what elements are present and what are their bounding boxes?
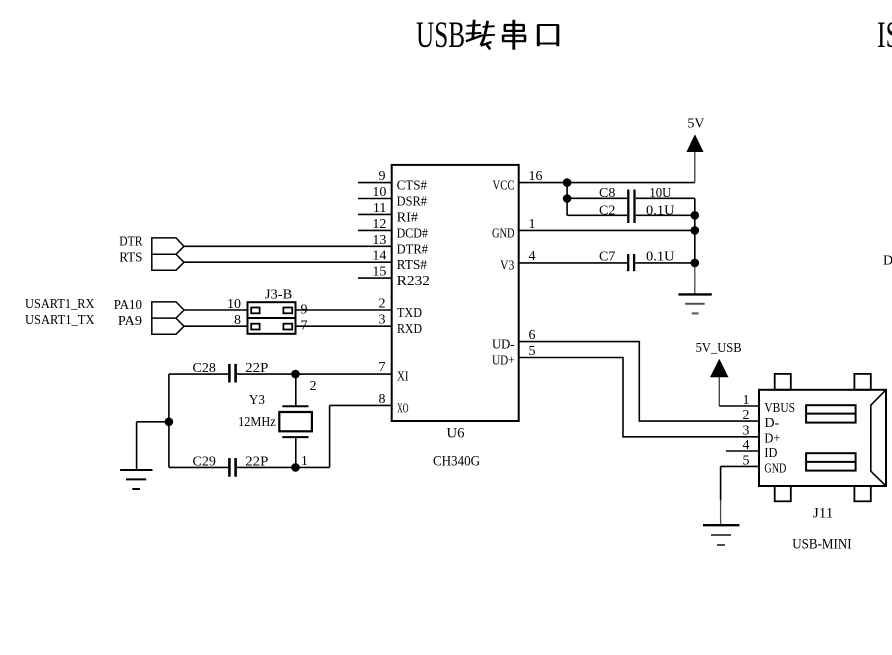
svg-text:9: 9 [301, 303, 308, 318]
svg-text:CTS#: CTS# [397, 179, 427, 194]
svg-text:VBUS: VBUS [764, 401, 795, 416]
svg-text:RTS: RTS [119, 250, 142, 265]
svg-text:XO: XO [397, 401, 409, 416]
svg-text:22P: 22P [245, 455, 268, 470]
svg-text:7: 7 [379, 360, 386, 375]
svg-text:DTR: DTR [119, 234, 143, 249]
svg-text:5V: 5V [687, 117, 704, 132]
svg-text:1: 1 [743, 393, 750, 408]
svg-text:22P: 22P [245, 361, 268, 376]
svg-text:RTS#: RTS# [397, 258, 427, 273]
svg-text:PA9: PA9 [118, 314, 142, 329]
svg-text:0.1U: 0.1U [646, 249, 675, 264]
svg-text:USART1_TX: USART1_TX [25, 313, 95, 328]
svg-text:J3-B: J3-B [265, 288, 293, 303]
svg-text:DCD#: DCD# [397, 226, 428, 241]
svg-text:J11: J11 [813, 506, 834, 522]
svg-text:GND: GND [492, 226, 515, 241]
svg-text:C8: C8 [599, 186, 615, 201]
svg-text:IS: IS [877, 15, 892, 56]
svg-text:0.1U: 0.1U [646, 203, 675, 218]
svg-text:2: 2 [743, 408, 750, 423]
svg-text:C7: C7 [599, 249, 615, 264]
svg-text:12MHz: 12MHz [238, 415, 276, 430]
svg-text:DTR#: DTR# [397, 242, 428, 257]
svg-text:10: 10 [227, 297, 241, 312]
svg-text:Y3: Y3 [249, 393, 265, 408]
svg-text:C28: C28 [193, 361, 216, 376]
svg-text:7: 7 [301, 319, 308, 334]
svg-text:R232: R232 [397, 274, 430, 289]
svg-text:8: 8 [234, 313, 241, 328]
svg-text:CH340G: CH340G [433, 454, 480, 470]
svg-text:TXD: TXD [397, 306, 422, 321]
svg-text:D-: D- [764, 416, 779, 431]
svg-text:U6: U6 [446, 426, 465, 442]
svg-text:D+: D+ [764, 431, 780, 446]
svg-text:ID: ID [764, 446, 777, 461]
svg-text:D: D [883, 254, 892, 269]
svg-text:V3: V3 [500, 259, 515, 274]
svg-text:RI#: RI# [397, 210, 418, 225]
svg-text:10U: 10U [649, 186, 671, 201]
svg-text:VCC: VCC [493, 179, 515, 194]
svg-text:PA10: PA10 [114, 298, 142, 313]
svg-text:4: 4 [529, 249, 536, 264]
svg-text:UD-: UD- [492, 338, 515, 353]
svg-text:5V_USB: 5V_USB [696, 341, 742, 356]
svg-text:GND: GND [764, 461, 786, 476]
svg-text:4: 4 [743, 438, 750, 453]
svg-text:C2: C2 [599, 203, 615, 218]
svg-text:DSR#: DSR# [397, 195, 427, 210]
svg-text:2: 2 [310, 379, 317, 394]
svg-text:3: 3 [379, 312, 386, 327]
svg-text:USB: USB [416, 15, 465, 56]
svg-text:UD+: UD+ [492, 354, 515, 369]
svg-text:1: 1 [301, 454, 308, 469]
svg-text:C29: C29 [193, 455, 216, 470]
svg-text:RXD: RXD [397, 322, 422, 337]
svg-text:XI: XI [397, 370, 409, 385]
svg-text:USART1_RX: USART1_RX [25, 297, 95, 312]
svg-text:5: 5 [743, 453, 750, 468]
svg-text:USB-MINI: USB-MINI [792, 537, 851, 553]
svg-text:3: 3 [743, 423, 750, 438]
